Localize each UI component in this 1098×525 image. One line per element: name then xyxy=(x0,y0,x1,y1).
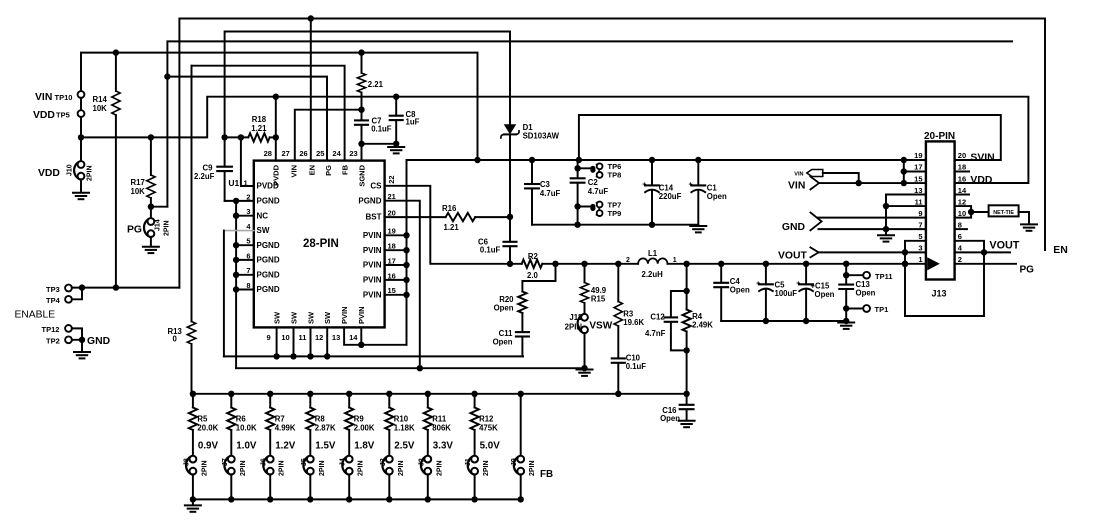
svg-text:SVIN: SVIN xyxy=(970,153,994,164)
wire bus to ground xyxy=(192,499,194,505)
resistor R12 475K xyxy=(471,394,499,456)
junction J11 ground rail xyxy=(581,365,587,371)
resistor R15 49.9 to VSW xyxy=(580,264,606,314)
svg-text:26: 26 xyxy=(299,149,307,158)
jumper J2 2PIN xyxy=(418,456,443,500)
capacitor C15 Open xyxy=(796,264,834,321)
svg-text:475K: 475K xyxy=(479,424,498,433)
junction frame crossings xyxy=(902,249,987,267)
svg-text:J1: J1 xyxy=(465,458,472,466)
wire left PGND pin stubs xyxy=(236,216,254,290)
svg-text:2PIN: 2PIN xyxy=(201,460,208,476)
svg-text:1.21: 1.21 xyxy=(251,124,267,133)
svg-text:SW: SW xyxy=(272,311,281,324)
resistor R6 10.0K xyxy=(227,394,257,456)
testpoint TP10 VIN xyxy=(35,91,84,103)
IC left pin names and numbers xyxy=(246,182,280,295)
wire TP5 to VDD junction xyxy=(80,117,82,137)
svg-text:11: 11 xyxy=(915,197,923,206)
wire TP12 to TP2 node xyxy=(72,328,82,339)
capacitor C13 Open xyxy=(839,264,875,321)
svg-text:TP9: TP9 xyxy=(608,209,622,218)
svg-text:13: 13 xyxy=(332,333,340,342)
junction FB bus dots xyxy=(190,391,690,397)
wire EN net top rail from ENABLE to right side xyxy=(179,19,1045,288)
svg-text:ENABLE: ENABLE xyxy=(15,309,56,320)
capacitor C2 4.7uF xyxy=(571,160,609,225)
wire FB top bus xyxy=(193,393,687,395)
svg-text:+: + xyxy=(642,182,646,189)
svg-text:EN: EN xyxy=(307,165,316,175)
svg-text:Open: Open xyxy=(494,304,514,313)
jumper J3 2PIN xyxy=(380,456,405,500)
svg-text:9: 9 xyxy=(918,209,922,218)
junction R18 left node xyxy=(221,134,244,140)
svg-text:17: 17 xyxy=(914,163,922,172)
svg-text:10K: 10K xyxy=(93,104,108,113)
ground below J14 xyxy=(143,247,159,253)
J13 pin numbers xyxy=(914,151,967,264)
svg-text:R14: R14 xyxy=(93,95,108,104)
label VDD right xyxy=(970,175,992,186)
svg-text:220uF: 220uF xyxy=(659,192,682,201)
label 1.0V xyxy=(236,440,257,451)
svg-text:7: 7 xyxy=(918,220,922,229)
svg-text:2PIN: 2PIN xyxy=(436,460,443,476)
testpoint TP4 xyxy=(46,296,72,305)
junction pin28/R18 xyxy=(273,134,279,140)
svg-text:TP11: TP11 xyxy=(875,272,893,281)
svg-text:TP5: TP5 xyxy=(56,110,70,119)
resistor R9 2.00K xyxy=(345,394,375,456)
svg-text:PG: PG xyxy=(1020,264,1035,275)
svg-text:PVIN: PVIN xyxy=(340,306,349,324)
svg-text:11: 11 xyxy=(299,333,307,342)
junction ground rail dots xyxy=(574,222,655,228)
svg-text:PGND: PGND xyxy=(257,241,280,250)
label SVIN xyxy=(970,153,994,164)
wire SW rail xyxy=(224,355,523,357)
testpoint pair TP7 TP9 xyxy=(578,200,622,217)
resistor R18 1.21 xyxy=(225,115,276,142)
wire pins 13 14 PVIN bottom xyxy=(344,327,406,348)
svg-text:R18: R18 xyxy=(252,115,267,124)
svg-text:20.0K: 20.0K xyxy=(197,424,218,433)
capacitor C10 0.1uF xyxy=(612,353,647,393)
net-tie NET-TIE block xyxy=(989,205,1019,216)
wire pin 4 SW down xyxy=(223,231,225,357)
svg-text:TP4: TP4 xyxy=(46,296,61,305)
svg-text:5.0V: 5.0V xyxy=(480,440,501,451)
junction TP1 tap xyxy=(843,305,849,311)
resistor R13 0 FB link xyxy=(168,66,196,394)
svg-text:+: + xyxy=(689,182,693,189)
svg-text:CS: CS xyxy=(370,181,382,190)
wire L1 to J13 pin1 VOUT rail xyxy=(668,263,926,265)
svg-text:2.2uH: 2.2uH xyxy=(642,270,664,279)
capacitor C6 0.1uF bootstrap xyxy=(478,217,516,264)
label 3.3V xyxy=(433,440,454,451)
svg-text:VIN: VIN xyxy=(794,172,803,178)
testpoint TP5 VDD xyxy=(33,110,84,121)
resistor 2.21 to pin27 xyxy=(357,53,383,110)
svg-text:14: 14 xyxy=(958,186,967,195)
capacitor C16 Open xyxy=(660,394,693,423)
resistor R16 1.21 BST xyxy=(385,204,510,232)
testpoint TP3 xyxy=(46,285,72,294)
svg-text:28-PIN: 28-PIN xyxy=(303,238,339,250)
jumper J7 2PIN xyxy=(222,456,247,500)
resistor R4 2.49K xyxy=(683,264,714,394)
svg-text:20: 20 xyxy=(958,151,966,160)
svg-text:19: 19 xyxy=(914,151,922,160)
svg-text:C12: C12 xyxy=(650,312,665,321)
wire VIN net line D xyxy=(81,53,478,160)
capacitor C7 0.1uF xyxy=(355,110,392,144)
svg-text:6: 6 xyxy=(958,232,962,241)
svg-text:SW: SW xyxy=(289,311,298,324)
svg-text:PVIN: PVIN xyxy=(363,290,382,299)
svg-text:0.1uF: 0.1uF xyxy=(371,125,392,134)
svg-text:2PIN: 2PIN xyxy=(319,460,326,476)
pin 1 marker triangle xyxy=(927,257,940,270)
junction bottom bus dots xyxy=(190,496,524,502)
wire pin 10 stub xyxy=(955,212,972,218)
svg-text:4: 4 xyxy=(958,243,963,252)
svg-text:3.3V: 3.3V xyxy=(433,440,454,451)
jumper J10 2PIN VDD xyxy=(38,137,94,192)
svg-text:TP1: TP1 xyxy=(875,305,889,314)
svg-text:R5: R5 xyxy=(197,414,208,423)
junction dots enable line xyxy=(79,284,119,290)
svg-text:2.00K: 2.00K xyxy=(354,424,375,433)
IC right pin names and numbers xyxy=(358,175,396,299)
diode D1 SD103AW xyxy=(501,122,560,217)
svg-text:2.5V: 2.5V xyxy=(394,440,415,451)
wire VIN arrow to pin15 xyxy=(819,182,904,184)
svg-text:L1: L1 xyxy=(648,249,658,258)
svg-text:24: 24 xyxy=(332,149,341,158)
wire NET-TIE to ground xyxy=(1019,212,1029,224)
svg-text:TP2: TP2 xyxy=(46,336,60,345)
junction node2 dots xyxy=(552,261,621,267)
svg-text:+: + xyxy=(796,281,800,288)
wire VOUT to pin3 xyxy=(819,251,926,253)
svg-text:SGND: SGND xyxy=(357,164,366,186)
junction flag tap xyxy=(856,180,862,186)
resistor R11 806K xyxy=(424,394,452,456)
svg-text:R7: R7 xyxy=(275,414,285,423)
wire pin 28 stub xyxy=(275,97,277,161)
svg-text:13: 13 xyxy=(914,186,922,195)
junction R4/C12 taps xyxy=(683,288,689,354)
inductor L1 2.2uH xyxy=(626,249,677,279)
capacitor C11 Open snubber xyxy=(493,313,529,356)
svg-text:FB: FB xyxy=(340,164,349,175)
svg-text:2PIN: 2PIN xyxy=(279,460,286,476)
resistor R3 19.6K xyxy=(614,264,644,358)
wire VDD-in rail line B to D1 xyxy=(225,32,510,138)
svg-text:4.99K: 4.99K xyxy=(275,424,296,433)
capacitor C5 100uF xyxy=(756,264,797,321)
svg-text:TP3: TP3 xyxy=(46,285,60,294)
junction VIN rail dots xyxy=(474,157,907,163)
svg-text:806K: 806K xyxy=(432,424,451,433)
label EN right xyxy=(1053,244,1068,256)
svg-text:10.0K: 10.0K xyxy=(236,424,257,433)
op-amp U1 28-PIN IC body xyxy=(254,161,385,328)
wire pin17/15 tie xyxy=(904,160,926,183)
resistor R2 2.0 xyxy=(522,252,543,280)
svg-text:1.2V: 1.2V xyxy=(275,440,296,451)
svg-text:Open: Open xyxy=(493,337,513,346)
junction net-tie tap xyxy=(968,209,974,215)
svg-text:16: 16 xyxy=(958,174,966,183)
svg-text:4.7nF: 4.7nF xyxy=(645,329,666,338)
label U1 and pin1 xyxy=(228,178,247,188)
svg-text:4: 4 xyxy=(246,222,251,231)
jumper J11 2PIN VSW xyxy=(565,313,613,368)
svg-text:10: 10 xyxy=(958,209,966,218)
svg-text:VIN: VIN xyxy=(290,165,299,178)
svg-text:NET-TIE: NET-TIE xyxy=(993,210,1014,216)
label GND left xyxy=(87,336,111,347)
label VIN arrow xyxy=(788,177,819,192)
svg-text:2PIN: 2PIN xyxy=(529,460,536,476)
resistor R10 1.18K xyxy=(385,394,415,456)
svg-text:2PIN: 2PIN xyxy=(398,460,405,476)
svg-text:J2: J2 xyxy=(418,458,425,466)
svg-text:10K: 10K xyxy=(131,187,146,196)
svg-text:PVIN: PVIN xyxy=(363,246,382,255)
svg-text:4.7uF: 4.7uF xyxy=(588,187,609,196)
wire pin 27 VIN stub xyxy=(295,110,362,161)
svg-text:Open: Open xyxy=(730,286,750,295)
svg-text:19.6K: 19.6K xyxy=(623,318,644,327)
jumper J1 2PIN xyxy=(465,456,490,500)
svg-text:14: 14 xyxy=(349,333,358,342)
wire PGND tie verticals pins 2-8 xyxy=(235,201,237,368)
svg-text:J3: J3 xyxy=(380,458,387,466)
wire pin 2 stub to C9 xyxy=(225,200,254,202)
svg-text:J5: J5 xyxy=(301,458,308,466)
svg-text:R12: R12 xyxy=(479,414,494,423)
svg-text:28: 28 xyxy=(264,149,272,158)
junction PG branch xyxy=(164,73,170,79)
wire VDD net line G xyxy=(81,97,1028,183)
svg-text:9: 9 xyxy=(267,333,271,342)
svg-text:+: + xyxy=(756,281,760,288)
svg-text:Open: Open xyxy=(660,414,680,423)
capacitor C8 1uF xyxy=(390,97,420,147)
svg-text:2PIN: 2PIN xyxy=(483,460,490,476)
svg-text:PGND: PGND xyxy=(257,270,280,279)
svg-text:VDD: VDD xyxy=(38,168,60,179)
svg-text:2PIN: 2PIN xyxy=(565,323,583,332)
junction C2 TP branches xyxy=(574,165,580,210)
svg-text:Open: Open xyxy=(707,192,727,201)
svg-text:3: 3 xyxy=(918,243,922,252)
svg-text:5: 5 xyxy=(918,232,922,241)
svg-text:2.2uF: 2.2uF xyxy=(194,172,215,181)
label GND arrow xyxy=(782,213,822,233)
label 1.8V xyxy=(354,440,375,451)
svg-text:2: 2 xyxy=(958,255,962,264)
jumper J6 2PIN xyxy=(261,456,286,500)
wire output cap ground rail xyxy=(721,320,846,322)
svg-text:PG: PG xyxy=(324,165,333,176)
svg-text:R2: R2 xyxy=(528,252,539,261)
svg-text:23: 23 xyxy=(349,149,357,158)
svg-text:GND: GND xyxy=(87,336,111,347)
label 5.0V xyxy=(480,440,501,451)
svg-text:J8: J8 xyxy=(183,458,190,466)
svg-text:FB: FB xyxy=(540,469,553,480)
svg-text:J10: J10 xyxy=(67,164,74,176)
svg-text:R16: R16 xyxy=(442,204,457,213)
junction SW rail dots xyxy=(273,353,330,359)
wire pin 14 stub xyxy=(955,194,969,196)
svg-text:2PIN: 2PIN xyxy=(240,460,247,476)
label PG right xyxy=(1020,264,1035,275)
wire PG node to vertical xyxy=(151,206,168,208)
wire gnd tie pins 13 11 7 xyxy=(886,195,926,235)
svg-text:2.49K: 2.49K xyxy=(692,320,713,329)
jumper J5 2PIN xyxy=(301,456,326,500)
svg-text:R17: R17 xyxy=(131,178,145,187)
svg-text:J14: J14 xyxy=(155,219,162,231)
ground below C13 rail xyxy=(838,323,854,329)
svg-text:J9: J9 xyxy=(511,458,518,466)
svg-text:TP10: TP10 xyxy=(55,93,73,102)
svg-text:12: 12 xyxy=(958,197,966,206)
ground below ladder xyxy=(185,505,201,511)
svg-text:U1: U1 xyxy=(228,178,239,188)
svg-text:1.21: 1.21 xyxy=(444,223,460,232)
svg-text:SW: SW xyxy=(257,226,270,235)
capacitor C12 4.7nF parallel xyxy=(645,291,687,350)
svg-text:PGND: PGND xyxy=(257,197,280,206)
svg-text:TP12: TP12 xyxy=(42,325,60,334)
capacitor C14 220uF xyxy=(642,160,681,225)
resistor R17 10K xyxy=(131,137,156,218)
wire FB net line E xyxy=(192,66,345,161)
svg-text:2.21: 2.21 xyxy=(368,80,384,89)
wire pin 12 stub xyxy=(955,206,972,212)
svg-text:PVIN: PVIN xyxy=(363,231,382,240)
jumper J9 2PIN FB xyxy=(511,394,553,500)
junction gnd tie dots xyxy=(883,203,889,232)
junction PGND pin dots xyxy=(233,198,239,293)
ground below C16 xyxy=(679,421,695,427)
svg-text:TP8: TP8 xyxy=(608,171,622,180)
wire PVIN right stubs xyxy=(385,235,407,294)
ground below C8 xyxy=(388,147,404,153)
svg-text:Open: Open xyxy=(856,289,876,298)
wire pin 8 stub xyxy=(955,228,967,230)
svg-text:25: 25 xyxy=(316,149,324,158)
wire CS pin22 to SW node xyxy=(385,186,522,264)
svg-text:R15: R15 xyxy=(591,294,606,303)
svg-text:SD103AW: SD103AW xyxy=(523,131,560,140)
wire pin 18 stub xyxy=(955,171,969,173)
ground at J13 left xyxy=(878,235,894,241)
testpoint TP1 xyxy=(846,305,888,314)
svg-text:J6: J6 xyxy=(261,458,268,466)
svg-text:2.0: 2.0 xyxy=(527,271,539,280)
wire GND to pin7 xyxy=(819,228,926,230)
svg-text:PGND: PGND xyxy=(358,196,381,205)
svg-text:PVIN: PVIN xyxy=(363,261,382,270)
svg-text:2.87K: 2.87K xyxy=(315,424,336,433)
resistor R8 2.87K xyxy=(306,394,336,456)
svg-text:PVDD: PVDD xyxy=(272,164,281,185)
svg-text:4.7uF: 4.7uF xyxy=(540,189,561,198)
testpoint TP12 xyxy=(42,325,72,334)
capacitor C4 Open xyxy=(714,264,750,321)
IC top pin numbers and rotated names xyxy=(264,149,367,187)
svg-text:1.8V: 1.8V xyxy=(354,440,375,451)
svg-text:1: 1 xyxy=(918,255,922,264)
svg-text:22: 22 xyxy=(387,175,396,183)
svg-text:2PIN: 2PIN xyxy=(164,220,171,236)
wire pin 26 EN stub xyxy=(310,19,312,161)
junction C6/SW rail xyxy=(507,261,513,267)
wire VIN rail xyxy=(407,159,926,161)
wire pin 2 PG line xyxy=(955,263,1016,265)
wire pin 1 PVDD stub xyxy=(241,137,254,186)
label VOUT arrow xyxy=(778,247,819,261)
svg-text:0.1uF: 0.1uF xyxy=(626,362,647,371)
svg-text:1.0V: 1.0V xyxy=(236,440,257,451)
testpoint pair TP6 TP8 xyxy=(578,162,622,179)
label 0.9V xyxy=(198,440,219,451)
junction BST/C6/D1 node xyxy=(507,214,513,220)
ground below C1 xyxy=(690,226,706,232)
svg-text:1uF: 1uF xyxy=(406,117,420,126)
junction out gnd dots xyxy=(763,318,850,324)
svg-text:0: 0 xyxy=(173,334,178,343)
wire VIN flag to pin15 line xyxy=(823,173,859,183)
svg-text:100uF: 100uF xyxy=(775,289,798,298)
wire PG net long rail line C xyxy=(167,41,1012,206)
resistor R5 20.0K xyxy=(189,394,219,456)
svg-text:VIN: VIN xyxy=(788,180,805,191)
svg-text:R9: R9 xyxy=(354,414,365,423)
svg-text:12: 12 xyxy=(315,333,323,342)
junction dots on VIN line D xyxy=(113,49,365,55)
svg-text:0.9V: 0.9V xyxy=(198,440,219,451)
svg-text:J7: J7 xyxy=(222,458,229,466)
svg-text:0.1uF: 0.1uF xyxy=(480,246,501,255)
jumper J14 2PIN PG xyxy=(127,218,171,246)
svg-text:R6: R6 xyxy=(236,414,247,423)
svg-text:Open: Open xyxy=(815,290,835,299)
wire C7/C8 ground tie and pin23 SGND xyxy=(358,141,399,161)
IC bottom pin numbers and rotated names xyxy=(267,306,367,341)
label ENABLE xyxy=(15,309,56,320)
wire GND to pin9 xyxy=(818,217,926,219)
svg-text:2: 2 xyxy=(626,257,630,264)
wire TP4 up to node xyxy=(72,288,82,300)
svg-text:SW: SW xyxy=(306,311,315,324)
junction R17/PG xyxy=(148,204,154,210)
svg-text:BST: BST xyxy=(366,213,382,222)
wire TP2 node to ground xyxy=(72,337,85,352)
svg-text:PGND: PGND xyxy=(257,256,280,265)
testpoint TP2 xyxy=(46,336,72,345)
capacitor C9 2.2uF xyxy=(194,137,232,201)
